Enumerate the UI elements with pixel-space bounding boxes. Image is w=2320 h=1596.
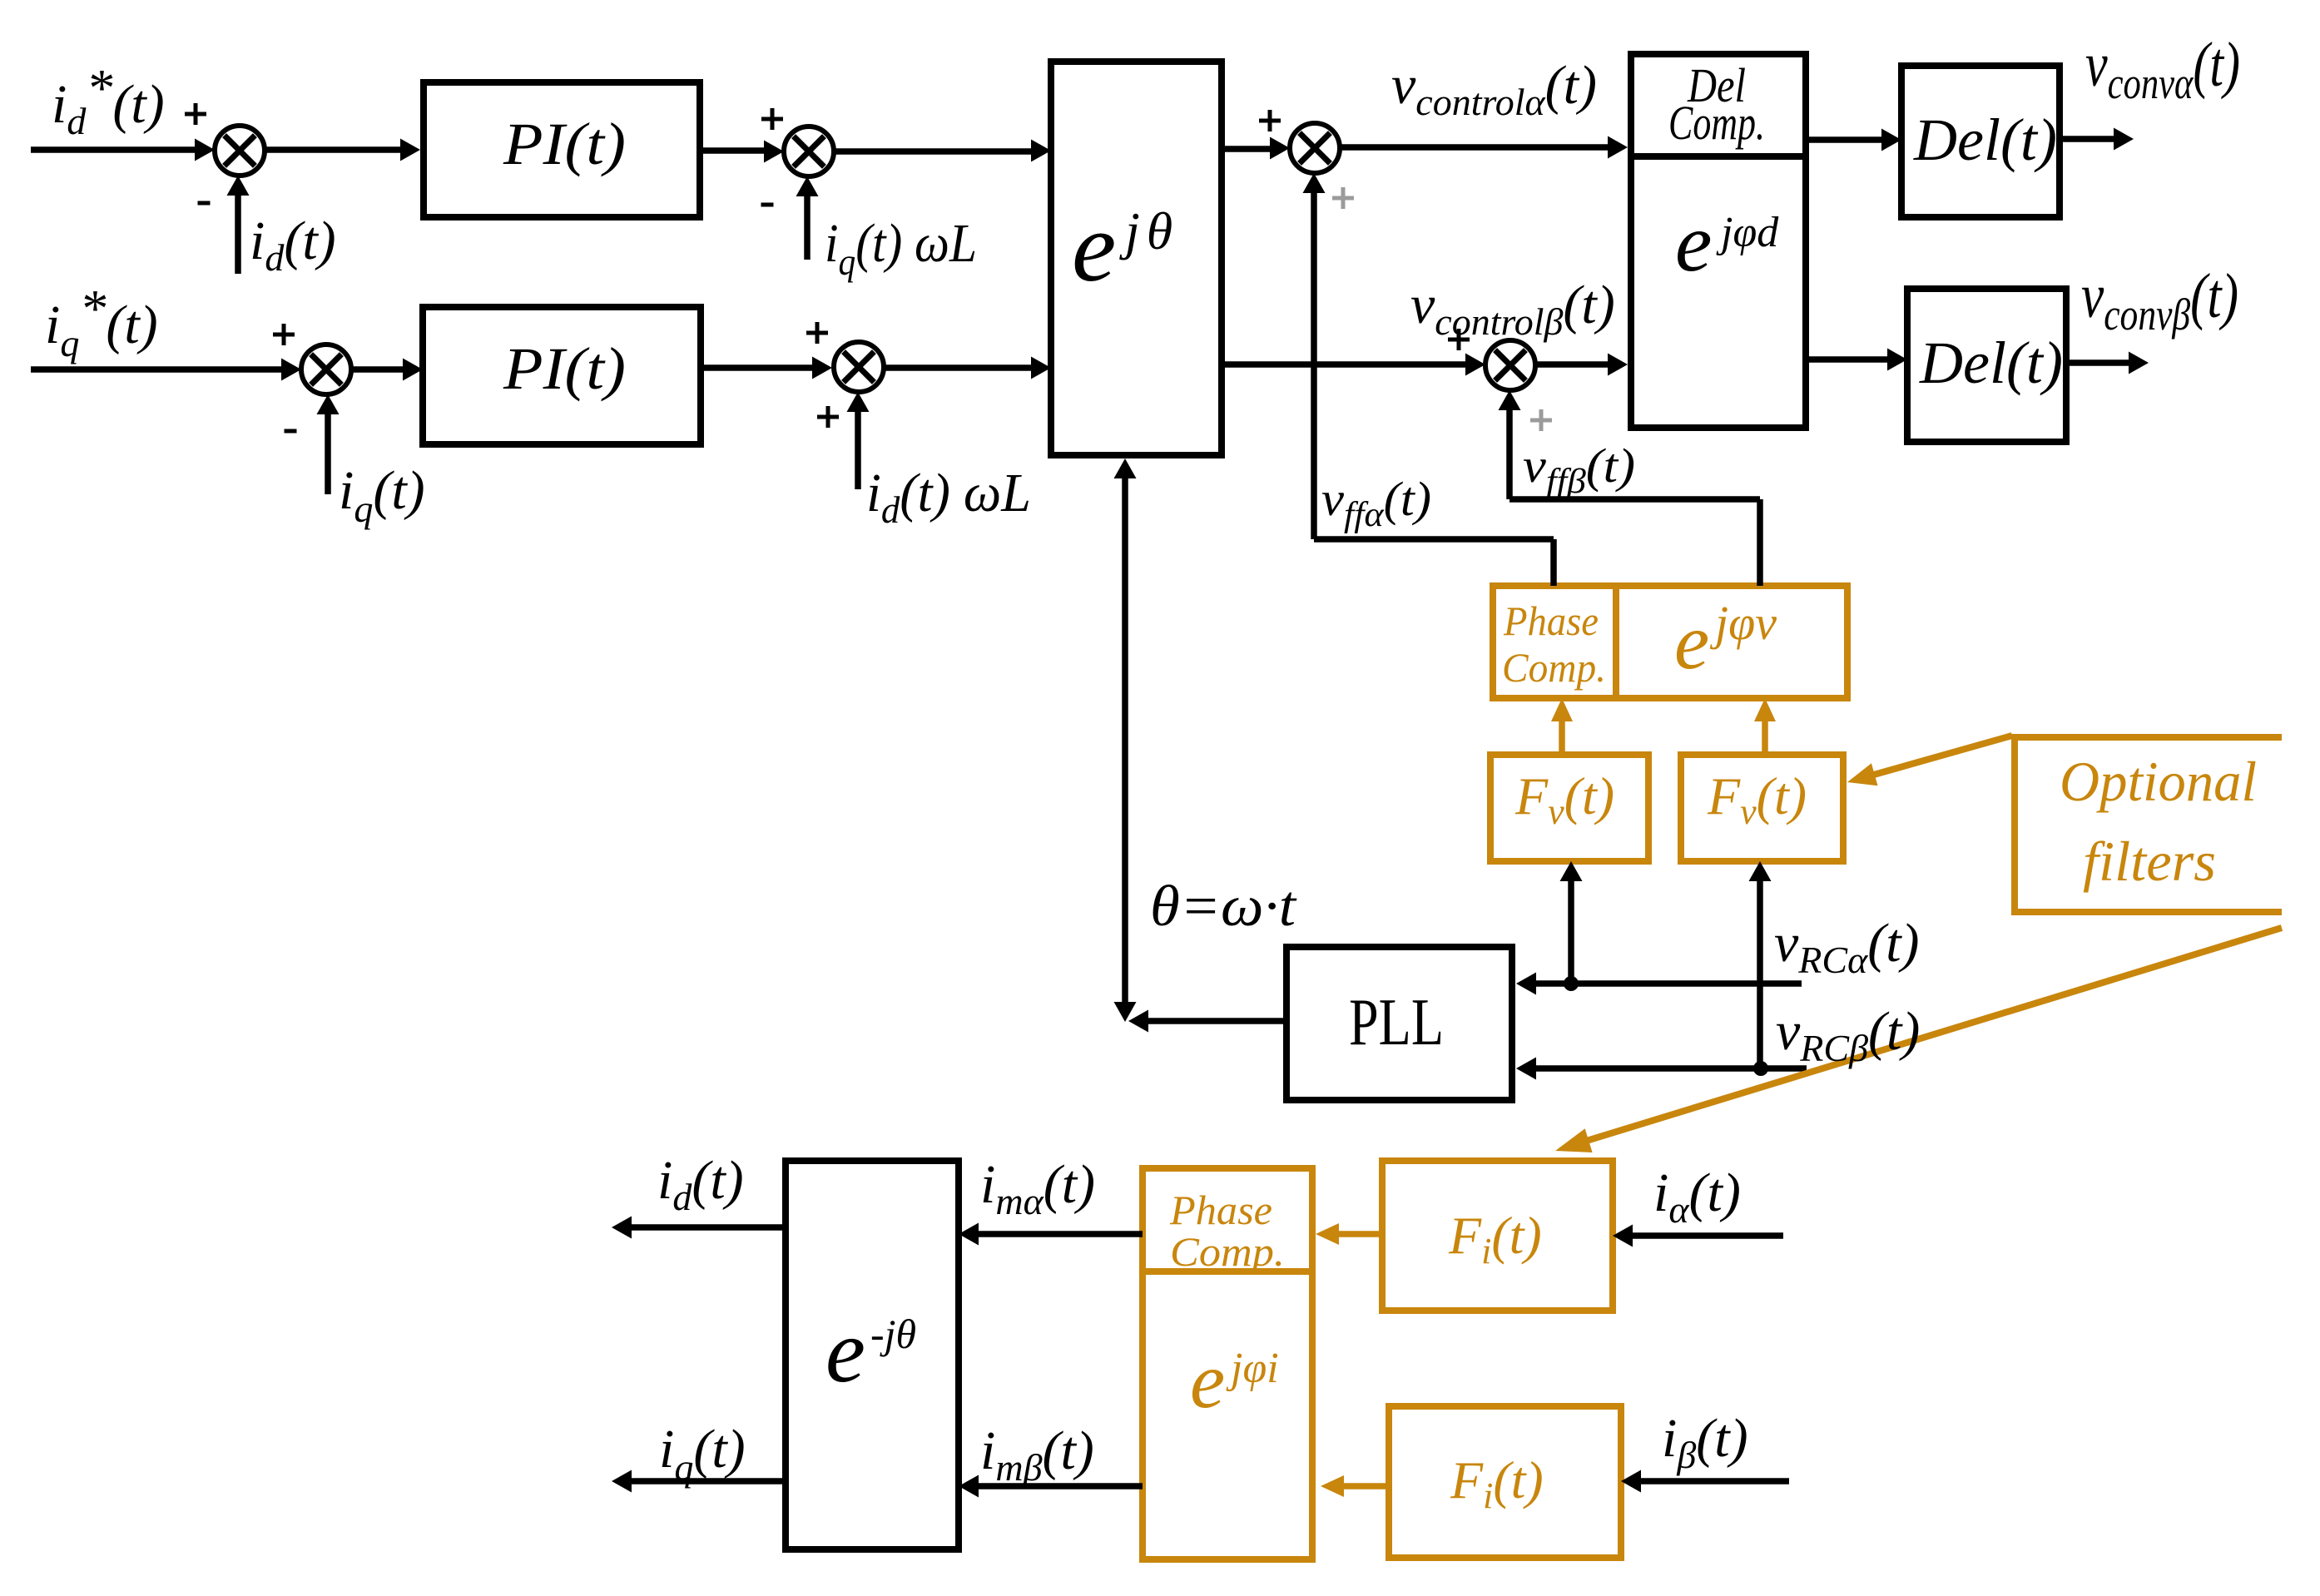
svg-text:e: e bbox=[1190, 1336, 1225, 1425]
svg-text:Fv(t): Fv(t) bbox=[1707, 766, 1807, 832]
svg-text:iα(t): iα(t) bbox=[1653, 1162, 1741, 1231]
wire id(t) output bbox=[630, 1224, 786, 1231]
divider of PCI bbox=[1143, 1268, 1312, 1275]
svg-text:vRCα(t): vRCα(t) bbox=[1774, 913, 1920, 981]
plus sign at SA1 bbox=[185, 112, 206, 116]
svg-text:vcontrolβ(t): vcontrolβ(t) bbox=[1410, 275, 1615, 343]
minus sign at SB1 bbox=[285, 429, 297, 434]
svg-text:Phase: Phase bbox=[1503, 597, 1599, 644]
wire id* input bbox=[31, 146, 196, 153]
wire iq feedback into SB1 bbox=[325, 413, 331, 494]
block DEL1 (Del(t) alpha delay) bbox=[1901, 66, 2060, 217]
svg-text:iq(t): iq(t) bbox=[659, 1419, 746, 1489]
svg-text:iq(t) ωL: iq(t) ωL bbox=[825, 213, 977, 283]
wire vRC alpha up to FV1 bbox=[1568, 880, 1574, 984]
block PI2 (q-axis PI controller) bbox=[423, 307, 701, 444]
svg-text:jφd: jφd bbox=[1716, 209, 1779, 256]
svg-text:e: e bbox=[1674, 597, 1709, 686]
svg-text:e: e bbox=[1675, 196, 1712, 289]
wire SB3 to EJD (v_control beta) bbox=[1535, 361, 1609, 368]
svg-text:vRCβ(t): vRCβ(t) bbox=[1776, 1001, 1920, 1069]
wire i alpha input into FI1 bbox=[1631, 1232, 1783, 1239]
svg-text:Optional: Optional bbox=[2060, 750, 2257, 813]
svg-text:vffβ(t): vffβ(t) bbox=[1523, 439, 1635, 501]
junction dot vRC alpha bbox=[1564, 976, 1579, 991]
wire vff alpha path bbox=[1311, 191, 1317, 539]
wire id wL into SB2 bbox=[855, 410, 861, 489]
svg-text:vconvα(t): vconvα(t) bbox=[2085, 30, 2240, 108]
wire EJD to DEL2 bbox=[1806, 356, 1889, 363]
wire iq wL into SA2 bbox=[804, 195, 811, 260]
sum junction SA1 (id* - id) bbox=[215, 126, 265, 176]
divider of PCV bbox=[1613, 586, 1619, 698]
svg-text:Phase: Phase bbox=[1169, 1187, 1272, 1233]
wire vRC alpha into PLL bbox=[1534, 980, 1802, 987]
svg-text:id(t) ωL: id(t) ωL bbox=[866, 463, 1031, 531]
svg-text:Comp.: Comp. bbox=[1170, 1228, 1285, 1275]
minus sign at SA2 bbox=[761, 203, 774, 207]
wire EJD to DEL1 bbox=[1806, 136, 1883, 143]
gold arrow OPT to FI1 (long diagonal) bbox=[1584, 928, 2282, 1142]
wire theta horizontal from PLL bbox=[1147, 1018, 1286, 1024]
svg-text:e: e bbox=[1072, 191, 1116, 302]
divider of EJD bbox=[1631, 153, 1806, 160]
wire PI2 to SB2 bbox=[701, 364, 814, 371]
block FI1 (Fi(t) filter alpha) bbox=[1382, 1161, 1613, 1311]
svg-text:-jθ: -jθ bbox=[870, 1311, 916, 1357]
plus sign at SB3 bbox=[1448, 338, 1470, 342]
junction dot vRC beta bbox=[1753, 1061, 1768, 1076]
svg-text:vcontrolα(t): vcontrolα(t) bbox=[1391, 55, 1597, 123]
wire EJT to SA3 bbox=[1222, 146, 1272, 152]
svg-text:Comp.: Comp. bbox=[1668, 96, 1765, 150]
wire SB2 to EJT bbox=[885, 364, 1033, 371]
block EJD (Del Comp / e^jphid) bbox=[1631, 54, 1806, 428]
plus sign bottom at SB2 bbox=[817, 415, 839, 419]
wire im alpha (PCI to EMJT) bbox=[977, 1231, 1143, 1237]
gold wire FV1 to PCV bbox=[1559, 716, 1565, 753]
sum junction SB3 (+ vff beta) bbox=[1485, 340, 1535, 390]
wire id feedback into SA1 bbox=[235, 194, 241, 274]
svg-text:vconvβ(t): vconvβ(t) bbox=[2081, 261, 2238, 340]
svg-text:Fv(t): Fv(t) bbox=[1514, 766, 1614, 832]
svg-text:iq*(t): iq*(t) bbox=[45, 279, 158, 364]
grey plus at SA3 bbox=[1332, 196, 1354, 201]
wire vff beta path bbox=[1506, 409, 1513, 499]
block FV1 (Fv(t) filter alpha) bbox=[1490, 755, 1648, 861]
wire theta vertical (EJT to PLL corner) bbox=[1122, 477, 1128, 1004]
wire PI1 to SA2 bbox=[700, 147, 766, 154]
wire iq* input bbox=[31, 366, 283, 373]
block EJT (e^jtheta rotation) bbox=[1051, 62, 1222, 455]
svg-text:id(t): id(t) bbox=[657, 1150, 744, 1218]
svg-text:imα(t): imα(t) bbox=[980, 1154, 1095, 1222]
svg-text:iq(t): iq(t) bbox=[339, 460, 425, 530]
plus sign at SA2 bbox=[761, 117, 783, 121]
svg-text:iβ(t): iβ(t) bbox=[1662, 1408, 1748, 1476]
svg-text:PI(t): PI(t) bbox=[503, 335, 626, 402]
svg-text:jφv: jφv bbox=[1709, 596, 1777, 650]
wire im beta (PCI to EMJT) bbox=[977, 1483, 1143, 1489]
svg-text:e: e bbox=[825, 1302, 865, 1401]
svg-text:Del(t): Del(t) bbox=[1919, 330, 2063, 396]
gold wire FI2 to PCI bbox=[1341, 1483, 1389, 1489]
block FI2 (Fi(t) filter beta) bbox=[1389, 1406, 1621, 1558]
block FV2 (Fv(t) filter beta) bbox=[1681, 755, 1843, 861]
wire SA3 to EJD (v_control alpha) bbox=[1340, 144, 1609, 151]
wire DEL1 output (v_conv alpha) bbox=[2060, 136, 2115, 142]
block PLL bbox=[1286, 947, 1512, 1100]
sum junction SB1 (iq* - iq) bbox=[301, 344, 351, 394]
svg-text:θ=ω·t: θ=ω·t bbox=[1150, 875, 1297, 939]
svg-text:vffα(t): vffα(t) bbox=[1321, 472, 1431, 534]
svg-text:Fi(t): Fi(t) bbox=[1450, 1450, 1544, 1516]
svg-text:Comp.: Comp. bbox=[1502, 644, 1606, 691]
minus sign at SA1 bbox=[198, 201, 211, 206]
svg-text:id*(t): id*(t) bbox=[52, 58, 165, 142]
plus sign at SA3 bbox=[1259, 119, 1281, 123]
svg-text:imβ(t): imβ(t) bbox=[980, 1420, 1094, 1489]
block EMJT (e^-jtheta rotation) bbox=[786, 1161, 959, 1549]
wire vRC beta into PLL bbox=[1534, 1065, 1807, 1072]
gold arrow OPT to FV2 bbox=[1866, 736, 2012, 777]
grey plus at SB3 bbox=[1530, 419, 1552, 423]
gold wire FI1 to PCI bbox=[1336, 1231, 1382, 1237]
plus sign at SB1 bbox=[273, 333, 295, 337]
wire DEL2 output (v_conv beta) bbox=[2066, 359, 2130, 366]
gold wire FV2 to PCV bbox=[1762, 716, 1768, 753]
svg-text:filters: filters bbox=[2083, 830, 2216, 893]
svg-text:jθ: jθ bbox=[1119, 201, 1172, 260]
wire vRC beta up to FV2 bbox=[1757, 880, 1763, 1068]
svg-text:Fi(t): Fi(t) bbox=[1448, 1206, 1542, 1271]
wire EJT to SB3 (beta) bbox=[1222, 361, 1467, 368]
wire i beta input into FI2 bbox=[1639, 1478, 1789, 1484]
wire SA2 to EJT bbox=[834, 148, 1033, 155]
block PCI (Phase Comp. / e^jphii) bbox=[1143, 1168, 1312, 1559]
block OPT (Optional filters note, open right) bbox=[2015, 737, 2282, 912]
svg-text:PLL: PLL bbox=[1349, 986, 1444, 1059]
svg-text:jφi: jφi bbox=[1226, 1345, 1279, 1392]
sum junction SA3 (+ vff alpha) bbox=[1290, 123, 1340, 173]
block PCV (Phase Comp. / e^jphiv) bbox=[1493, 586, 1847, 698]
sum junction SB2 (+ id wL) bbox=[834, 342, 884, 392]
svg-text:Del(t): Del(t) bbox=[1913, 107, 2057, 173]
block DEL2 (Del(t) beta delay) bbox=[1907, 289, 2066, 442]
block PI1 (d-axis PI controller) bbox=[424, 82, 700, 217]
svg-text:PI(t): PI(t) bbox=[503, 111, 626, 177]
svg-text:id(t): id(t) bbox=[250, 211, 336, 279]
plus sign top at SB2 bbox=[806, 331, 828, 335]
sum junction SA2 (+ iq wL) bbox=[784, 126, 834, 176]
wire SB1 to PI2 bbox=[351, 366, 404, 373]
wire iq(t) output bbox=[630, 1478, 786, 1484]
wire SA1 to PI1 bbox=[265, 146, 402, 153]
